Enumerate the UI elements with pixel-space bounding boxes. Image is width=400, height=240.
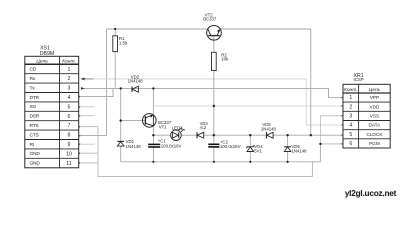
wire DTR row riser [81, 88, 113, 96]
wire VD4 to ground rail [249, 152, 251, 162]
svg-text:6.2: 6.2 [200, 125, 206, 130]
node PGM VSS ground junction [319, 143, 321, 145]
wire VD6 to ground rail [287, 152, 289, 162]
connector XR1 ICSP table [343, 73, 390, 148]
svg-text:GND: GND [30, 161, 41, 167]
svg-text:4: 4 [349, 123, 352, 129]
svg-text:3: 3 [68, 86, 71, 92]
svg-text:CD: CD [30, 67, 37, 73]
diode VD1 1N4148 (vertical, cathode up) [117, 139, 141, 149]
wire VT1 emitter to LED node [152, 126, 154, 135]
svg-text:LED1: LED1 [172, 125, 183, 130]
svg-text:1N4148: 1N4148 [128, 78, 144, 83]
wire GND pin11 stub [81, 162, 98, 164]
svg-text:7: 7 [68, 123, 71, 129]
XS1 pin nubs [79, 96, 81, 164]
svg-text:CLOCK: CLOCK [366, 132, 383, 137]
transistor VT1 BC337 [143, 114, 172, 130]
wire VDD line from VT1 riser [153, 105, 343, 107]
wire C2 bottom lead [213, 147, 215, 162]
svg-text:100.0x16V: 100.0x16V [161, 143, 182, 148]
wire Rx line continuation to DATA [94, 79, 344, 125]
node VD4 ground junction [249, 161, 251, 163]
node Tx VT1 junction [152, 87, 154, 89]
wire Tx line [81, 88, 343, 97]
svg-text:3: 3 [349, 114, 352, 120]
svg-text:1: 1 [68, 67, 71, 73]
wire VD3 to C2 node [204, 134, 250, 136]
transistor VT2 BC337 [203, 12, 221, 40]
wire DSR stub [81, 115, 94, 117]
svg-text:5V1: 5V1 [254, 149, 262, 154]
svg-text:8: 8 [68, 133, 71, 139]
svg-text:1: 1 [349, 95, 352, 101]
node R2 VDD junction [213, 105, 215, 107]
wire VSS row to ground vertical [320, 116, 343, 144]
svg-text:1N4148: 1N4148 [126, 144, 142, 149]
wire PGM row [320, 143, 343, 145]
wire VD5 to VD6 node [273, 134, 288, 136]
node C2 ground junction [213, 161, 215, 163]
svg-text:PGM: PGM [369, 141, 380, 146]
svg-text:1N4148: 1N4148 [261, 127, 277, 132]
wire VD6 branch [287, 135, 289, 146]
svg-text:ICSP: ICSP [353, 77, 363, 82]
svg-text:CTS: CTS [30, 132, 40, 138]
zener diode VD4 5V1 (vertical, cathode up, zener bar) [247, 144, 263, 154]
node VT1 C1 LED junction [152, 134, 154, 136]
diode VD5 1N4148 (horizontal, cathode left) [261, 122, 277, 138]
wire Rx line [85, 78, 94, 80]
svg-text:Цепь: Цепь [369, 87, 381, 93]
svg-text:Конт.: Конт. [344, 87, 358, 93]
wire ground rail [121, 144, 321, 162]
diode VD2 1N4148 [128, 74, 144, 92]
wire top rail right segment [220, 28, 311, 30]
svg-text:1N4148: 1N4148 [292, 149, 308, 154]
wire VD1 vertical from Tx node [120, 88, 122, 141]
wire VT2 emitter drop to clock node [310, 29, 312, 135]
wire SG stub [81, 106, 95, 108]
svg-text:BC337: BC337 [203, 17, 217, 22]
wire R2 bottom lead long vertical [213, 71, 215, 145]
node VT2 drop clock junction [310, 134, 312, 136]
wire R1 bottom lead [114, 52, 116, 89]
LED LED1 [171, 125, 185, 140]
svg-text:RTS: RTS [30, 123, 40, 129]
resistor R1 [113, 36, 128, 52]
svg-text:VSS: VSS [370, 114, 379, 119]
svg-text:Tx: Tx [30, 85, 36, 91]
svg-text:1.5k: 1.5k [119, 40, 128, 45]
wire CTS vertical from rail [106, 29, 108, 136]
svg-text:Конт.: Конт. [62, 58, 76, 64]
wire RI stub [81, 143, 95, 145]
node VD4 clock junction [249, 134, 251, 136]
wire top rail left segment [107, 28, 208, 30]
node VT1 base VD1 junction [120, 119, 122, 121]
wire C1 bottom lead [152, 147, 154, 162]
wire VD4 branch [249, 135, 251, 146]
resistor R2 [212, 52, 230, 70]
svg-text:4: 4 [68, 95, 71, 101]
svg-text:VDD: VDD [369, 104, 380, 109]
svg-text:SG: SG [30, 104, 37, 110]
capacitor C2 100.0x16V [208, 139, 240, 149]
svg-text:10k: 10k [221, 57, 229, 62]
node VD6 ground junction [287, 161, 289, 163]
svg-text:10: 10 [66, 151, 72, 157]
zener diode VD3 [197, 121, 208, 138]
wire R1 top lead [114, 29, 116, 36]
svg-text:DATA: DATA [368, 123, 381, 128]
wire VD1 to ground rail [120, 146, 122, 162]
svg-text:2: 2 [68, 76, 71, 82]
wire VD6 node to CLOCK row [288, 134, 343, 136]
node R2 C2 clock junction [213, 134, 215, 136]
node VD6 clock junction [286, 134, 288, 136]
wire clock line VD4 node to VD5 [250, 134, 266, 136]
wire CTS row [79, 135, 107, 137]
svg-text:5: 5 [349, 132, 352, 138]
arrow Rx (points left into connector) [81, 78, 85, 81]
arrow Tx (points right from connector) [81, 87, 85, 90]
wire RTS to lower ground path [81, 127, 312, 177]
node R1 top junction [114, 28, 116, 30]
svg-text:DTR: DTR [30, 95, 40, 101]
svg-text:VPP: VPP [370, 95, 379, 100]
wire VT1 base lead [121, 120, 146, 122]
wire VT2 base lead to R2 [213, 36, 215, 52]
wire VT1 collector riser [152, 88, 154, 114]
svg-text:DSR: DSR [30, 114, 40, 120]
svg-text:6: 6 [349, 141, 352, 147]
wire GND pin10 stub [81, 152, 98, 154]
svg-text:Цепь: Цепь [36, 58, 48, 64]
svg-text:GND: GND [30, 151, 41, 157]
svg-text:RI: RI [30, 142, 34, 148]
svg-text:2: 2 [349, 104, 352, 110]
capacitor C1 100.0x16V [148, 139, 181, 149]
svg-text:9: 9 [68, 142, 71, 148]
node C1 ground junction [152, 161, 154, 163]
svg-text:yl2gl.ucoz.net: yl2gl.ucoz.net [345, 189, 397, 198]
wire LED node to LED1 [153, 134, 170, 136]
XR1 pin nubs [342, 97, 344, 145]
connector XS1 DB9M table [25, 46, 79, 168]
svg-text:Rx: Rx [30, 76, 36, 82]
wire C1 top lead [152, 135, 154, 144]
svg-text:5: 5 [68, 104, 71, 110]
wire LED1 to VD3 [181, 134, 197, 136]
node Tx VD1 junction [120, 87, 122, 89]
svg-text:6: 6 [68, 114, 71, 120]
svg-text:VT1: VT1 [159, 125, 167, 130]
svg-text:100.0x16V: 100.0x16V [220, 144, 241, 149]
svg-text:11: 11 [66, 161, 71, 167]
diode VD6 1N4148 (vertical, cathode up) [284, 144, 307, 154]
